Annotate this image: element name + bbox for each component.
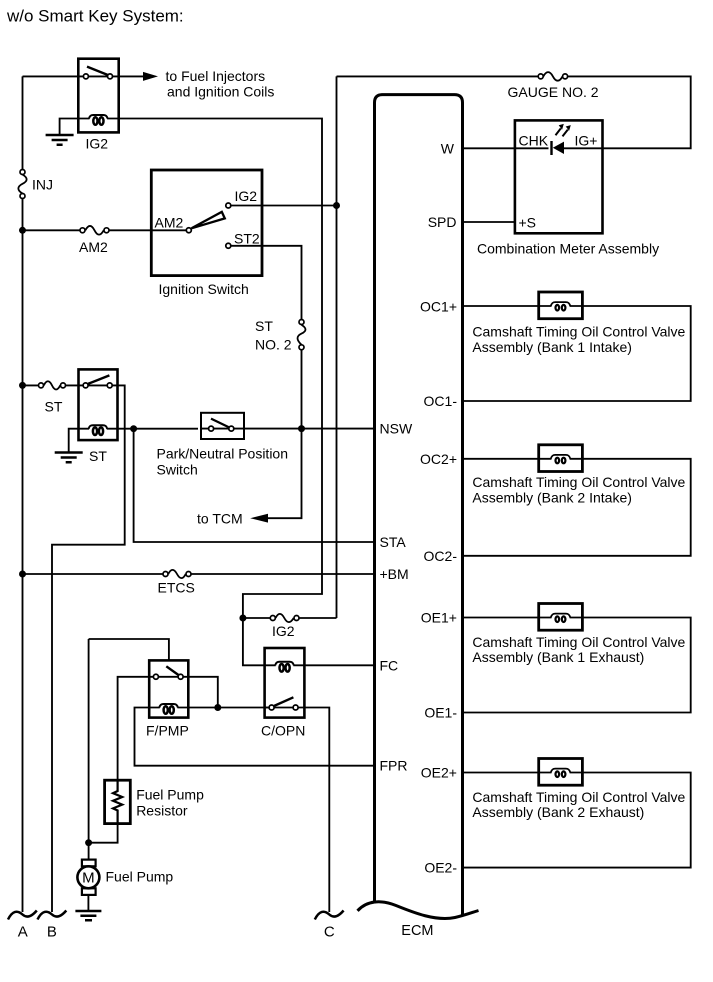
valve OE1 loop: [463, 618, 691, 713]
wire F/PMP contact right to junction: [188, 677, 218, 708]
svg-text:IG2: IG2: [86, 136, 109, 152]
svg-text:C/OPN: C/OPN: [261, 723, 305, 739]
terminal IG2: [226, 203, 231, 208]
wire IG2 coil right to down feed: [119, 119, 322, 619]
node AM2 junction: [19, 227, 26, 234]
motor fuel pump: [77, 860, 173, 910]
valve OE2 loop: [463, 773, 691, 868]
ground (IG2 relay): [46, 135, 74, 145]
wire ST coil to ground: [69, 429, 79, 452]
svg-text:M: M: [82, 870, 95, 887]
svg-text:Camshaft Timing Oil Control Va: Camshaft Timing Oil Control Valve: [472, 789, 685, 805]
svg-text:ST: ST: [45, 399, 63, 415]
svg-text:C: C: [324, 924, 335, 941]
wire ST coil to NSW line: [118, 428, 199, 430]
node fuel pump junction: [85, 839, 92, 846]
fuse IG2: [243, 614, 337, 639]
wire ST contact to connector B: [52, 385, 125, 912]
svg-text:OE1-: OE1-: [424, 705, 457, 721]
svg-text:NO. 2: NO. 2: [255, 337, 292, 353]
wire IG2 coil to ground: [60, 119, 79, 135]
node ETCS junction: [19, 571, 26, 578]
ECM terminal labels left: [380, 421, 413, 774]
relay C/OPN: [261, 648, 305, 739]
svg-text:IG+: IG+: [575, 133, 598, 149]
valve camshaft bank2 intake box: [539, 445, 583, 472]
svg-text:IG2: IG2: [235, 188, 258, 204]
wire C/OPN contact to connector C: [304, 708, 329, 913]
svg-text:AM2: AM2: [79, 239, 108, 255]
svg-text:FPR: FPR: [380, 758, 408, 774]
svg-text:SPD: SPD: [428, 214, 457, 230]
wire gauge feed vertical: [336, 76, 338, 618]
svg-text:Combination Meter Assembly: Combination Meter Assembly: [477, 241, 659, 257]
fuse AM2: [79, 226, 109, 255]
svg-text:STA: STA: [380, 534, 407, 550]
ECM bottom wave: [358, 902, 479, 919]
wire fuel pump feed vertical: [88, 639, 90, 860]
svg-text:OC1+: OC1+: [420, 299, 457, 315]
svg-text:Resistor: Resistor: [136, 803, 188, 819]
svg-text:OC2-: OC2-: [424, 548, 458, 564]
wire NSW: [244, 428, 375, 430]
svg-text:and Ignition Coils: and Ignition Coils: [167, 84, 274, 100]
svg-text:GAUGE NO. 2: GAUGE NO. 2: [508, 84, 599, 100]
wire W to meter: [463, 147, 515, 149]
wire AM2: [23, 229, 189, 231]
node STA branch: [130, 425, 137, 432]
node NSW junction: [298, 425, 305, 432]
valve camshaft bank1 intake box: [539, 292, 583, 319]
wire ST NO.2 fuse down to NSW junction and TCM: [268, 350, 302, 518]
svg-text:Camshaft Timing Oil Control Va: Camshaft Timing Oil Control Valve: [472, 474, 685, 490]
svg-text:ETCS: ETCS: [158, 580, 195, 596]
svg-text:+BM: +BM: [380, 566, 409, 582]
svg-text:ST2: ST2: [234, 231, 260, 247]
wire main left feed vertical: [22, 76, 24, 912]
fuse INJ: [18, 170, 53, 199]
svg-text:AM2: AM2: [155, 215, 184, 231]
relay F/PMP: [146, 660, 189, 738]
svg-text:+S: +S: [519, 215, 537, 231]
svg-text:W: W: [441, 140, 455, 156]
wire top feed to IG2 relay: [23, 75, 79, 77]
svg-text:B: B: [47, 924, 57, 941]
arrow to fuel injectors: [119, 75, 143, 77]
svg-text:w/o Smart Key System:: w/o Smart Key System:: [6, 7, 184, 26]
svg-text:Fuel Pump: Fuel Pump: [136, 787, 204, 803]
wire ETCS to +BM: [23, 573, 375, 575]
svg-text:Camshaft Timing Oil Control Va: Camshaft Timing Oil Control Valve: [472, 324, 685, 340]
wire STA: [134, 429, 375, 542]
svg-text:OC1-: OC1-: [424, 393, 458, 409]
wire inside meter: [515, 147, 603, 149]
svg-text:F/PMP: F/PMP: [146, 723, 189, 739]
svg-text:Assembly (Bank 1 Intake): Assembly (Bank 1 Intake): [472, 339, 632, 355]
svg-text:FC: FC: [380, 657, 399, 673]
connector C: [315, 911, 344, 920]
svg-text:to Fuel Injectors: to Fuel Injectors: [166, 68, 266, 84]
svg-text:Assembly (Bank 2 Exhaust): Assembly (Bank 2 Exhaust): [472, 804, 644, 820]
connector A: [8, 911, 37, 920]
wire IG2 fuse junction down to C/OPN coil: [243, 618, 265, 665]
node ST junction: [19, 382, 26, 389]
fuse ST: [39, 381, 66, 414]
ECM box: [358, 95, 479, 939]
node IG2 junction: [333, 202, 340, 209]
LED CHK: [550, 141, 552, 155]
valve camshaft bank1 exhaust box: [539, 604, 583, 631]
terminal AM2: [186, 228, 191, 233]
svg-text:Camshaft Timing Oil Control Va: Camshaft Timing Oil Control Valve: [472, 634, 685, 650]
wire F/PMP feed: [89, 639, 169, 660]
valve OC2 loop: [463, 459, 691, 556]
relay IG2: [78, 59, 118, 152]
svg-text:IG2: IG2: [272, 623, 295, 639]
wire FC: [304, 664, 374, 666]
svg-text:A: A: [18, 924, 28, 941]
combination meter assembly box: [515, 120, 603, 233]
wire FPR: [135, 708, 375, 766]
svg-text:Assembly (Bank 1 Exhaust): Assembly (Bank 1 Exhaust): [472, 649, 644, 665]
svg-text:NSW: NSW: [380, 421, 413, 437]
ground (fuel pump): [75, 911, 101, 920]
arrow to TCM: [250, 514, 268, 523]
valve camshaft bank2 exhaust box: [539, 759, 583, 786]
rotor blade: [192, 212, 225, 228]
node F/PMP C/OPN junction: [214, 704, 221, 711]
svg-text:OE1+: OE1+: [421, 610, 457, 626]
svg-text:to TCM: to TCM: [197, 511, 243, 527]
svg-text:Ignition Switch: Ignition Switch: [159, 281, 249, 297]
node IG2 fuse junction: [239, 615, 246, 622]
wire ST2 to fuse: [232, 246, 302, 319]
svg-text:CHK: CHK: [519, 133, 549, 149]
svg-text:Switch: Switch: [157, 462, 198, 478]
svg-text:Fuel Pump: Fuel Pump: [106, 869, 174, 885]
ground (ST relay): [55, 453, 83, 463]
wire resistor to pump junction: [89, 824, 118, 843]
svg-text:OE2-: OE2-: [424, 860, 457, 876]
ignition switch U: box: [151, 170, 262, 276]
switch park/neutral position: [201, 413, 244, 439]
svg-text:Assembly (Bank 2 Intake): Assembly (Bank 2 Intake): [472, 490, 632, 506]
wire F/PMP contact left to resistor: [118, 677, 150, 780]
resistor fuel pump resistor: [105, 780, 205, 823]
ECM terminal labels right: [420, 140, 457, 875]
svg-text:Park/Neutral Position: Park/Neutral Position: [157, 446, 289, 462]
wire gauge top: [337, 76, 691, 148]
fuse GAUGE NO. 2: [508, 72, 599, 100]
svg-text:ECM: ECM: [401, 923, 433, 939]
wire IG2 terminal to vertical: [232, 205, 337, 207]
connector B: [38, 911, 67, 920]
svg-text:ST: ST: [255, 318, 273, 334]
wire F/PMP coil to C/OPN contact: [188, 707, 268, 709]
relay ST: [79, 369, 118, 464]
terminal ST2: [226, 243, 231, 248]
wire SPD to meter: [463, 221, 515, 223]
fuse ETCS: [158, 570, 195, 596]
valve OC1 loop: [463, 306, 691, 401]
svg-text:INJ: INJ: [32, 177, 53, 193]
wire ST fuse: [23, 384, 79, 386]
svg-text:ST: ST: [89, 448, 107, 464]
svg-text:OE2+: OE2+: [421, 765, 457, 781]
svg-text:OC2+: OC2+: [420, 451, 457, 467]
fuse ST NO. 2: [255, 318, 305, 353]
